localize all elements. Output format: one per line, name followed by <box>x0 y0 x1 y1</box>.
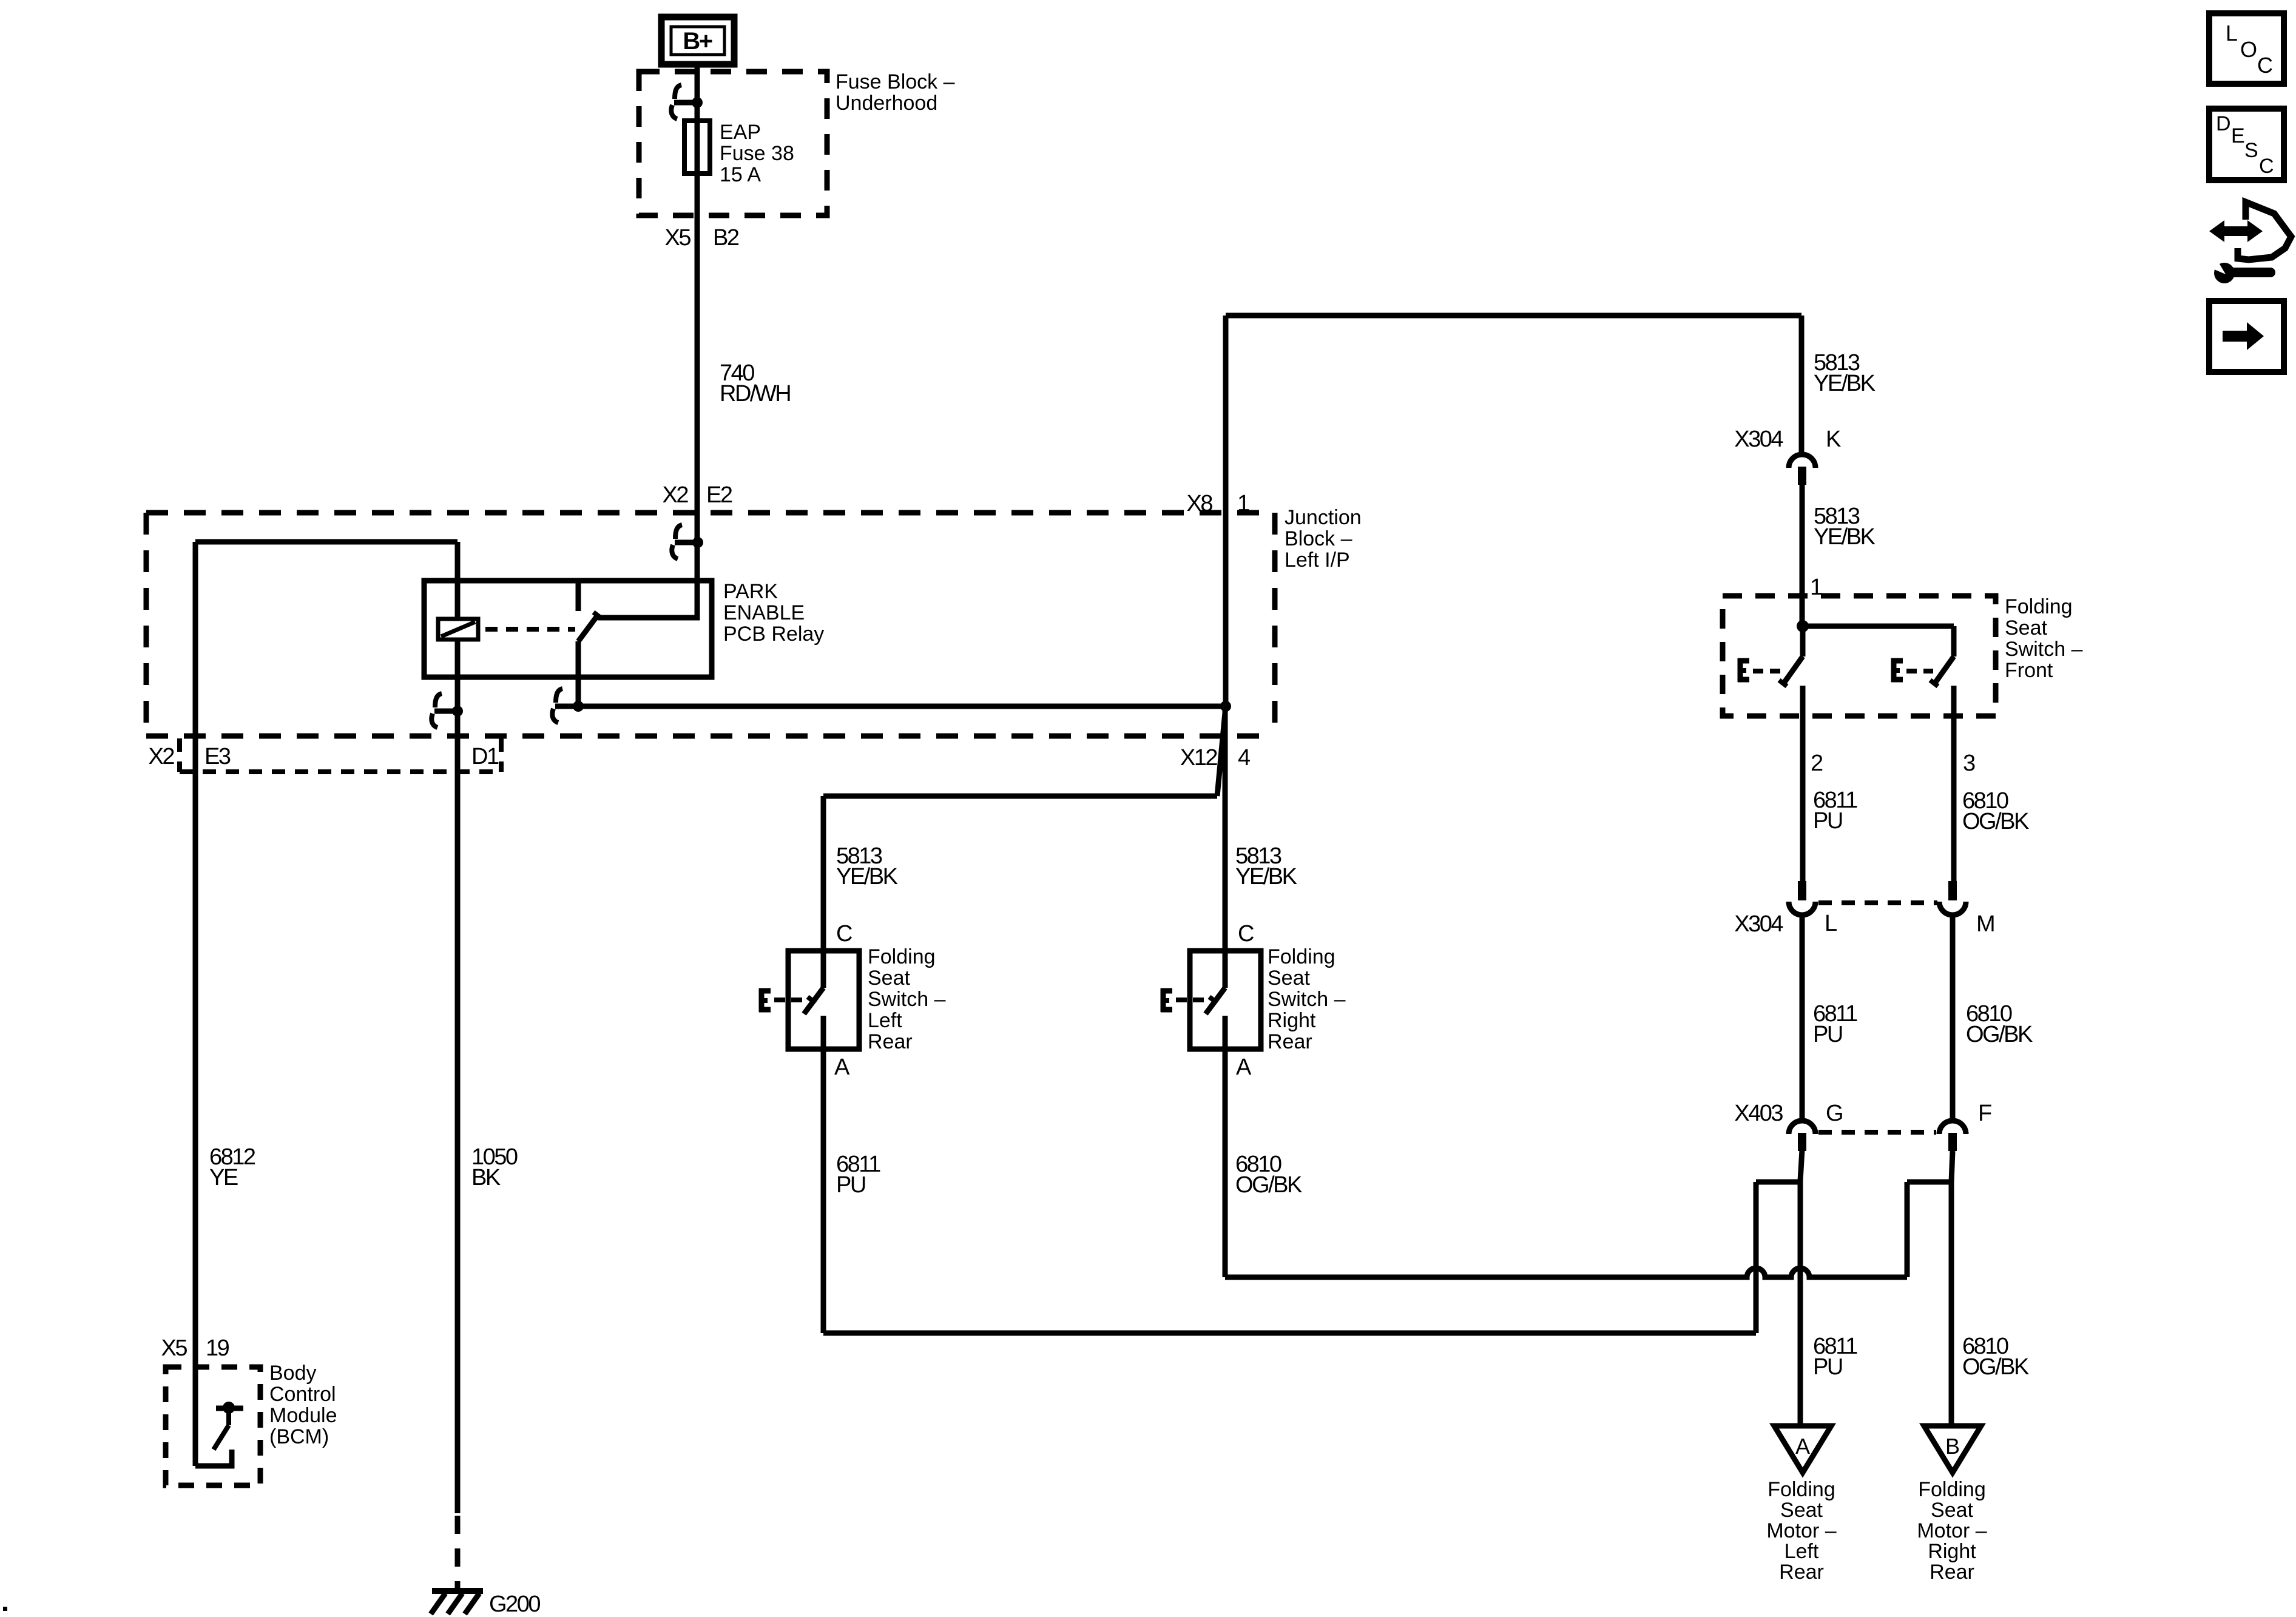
svg-text:15 A: 15 A <box>720 163 761 186</box>
svg-text:A: A <box>1236 1055 1252 1080</box>
svg-text:Folding: Folding <box>868 945 936 968</box>
svg-text:G: G <box>1826 1101 1842 1126</box>
svg-text:Switch –: Switch – <box>2005 638 2083 661</box>
svg-text:Switch –: Switch – <box>1268 988 1346 1011</box>
svg-text:OG/BK: OG/BK <box>1962 1354 2029 1380</box>
svg-text:D: D <box>2216 112 2231 135</box>
svg-text:G200: G200 <box>489 1592 540 1617</box>
svg-text:Switch –: Switch – <box>868 988 946 1011</box>
svg-text:PU: PU <box>1813 1022 1842 1047</box>
svg-text:YE/BK: YE/BK <box>836 864 898 890</box>
svg-text:Seat: Seat <box>1268 967 1310 990</box>
svg-text:1: 1 <box>1810 575 1822 600</box>
svg-text:Rear: Rear <box>1930 1561 1974 1584</box>
svg-text:C: C <box>2257 53 2273 78</box>
svg-text:YE: YE <box>209 1165 238 1190</box>
svg-text:E: E <box>2231 124 2245 147</box>
svg-text:B: B <box>1945 1434 1960 1459</box>
svg-text:X12: X12 <box>1180 745 1217 771</box>
svg-text:Seat: Seat <box>868 967 910 990</box>
svg-text:Control: Control <box>269 1383 336 1406</box>
svg-text:(BCM): (BCM) <box>269 1425 329 1448</box>
svg-text:4: 4 <box>1238 745 1251 771</box>
svg-text:Seat: Seat <box>2005 616 2047 640</box>
svg-text:Module: Module <box>269 1404 337 1427</box>
svg-text:2: 2 <box>1811 751 1823 776</box>
svg-text:Folding: Folding <box>1918 1478 1986 1501</box>
svg-text:B2: B2 <box>713 225 739 251</box>
svg-text:S: S <box>2244 139 2258 162</box>
svg-text:1: 1 <box>1237 491 1249 516</box>
svg-text:A: A <box>1795 1434 1810 1459</box>
svg-text:X5: X5 <box>665 225 691 251</box>
svg-text:Fuse 38: Fuse 38 <box>720 142 794 165</box>
svg-text:C: C <box>2259 155 2274 178</box>
svg-text:Junction: Junction <box>1285 506 1362 529</box>
svg-text:Right: Right <box>1928 1540 1976 1563</box>
svg-text:PARK: PARK <box>723 580 778 603</box>
svg-text:Folding: Folding <box>1268 945 1335 968</box>
svg-text:YE/BK: YE/BK <box>1814 371 1876 396</box>
svg-text:K: K <box>1826 427 1841 452</box>
svg-text:Fuse Block –: Fuse Block – <box>836 70 955 93</box>
svg-text:E3: E3 <box>204 744 231 769</box>
svg-text:BK: BK <box>471 1165 501 1190</box>
svg-text:X5: X5 <box>161 1335 187 1361</box>
svg-text:X403: X403 <box>1734 1101 1783 1126</box>
svg-text:C: C <box>836 921 852 947</box>
svg-text:F: F <box>1978 1101 1991 1126</box>
svg-text:Rear: Rear <box>1779 1561 1824 1584</box>
svg-text:Motor –: Motor – <box>1766 1519 1836 1542</box>
svg-text:D1: D1 <box>471 744 499 769</box>
svg-text:A: A <box>834 1055 850 1080</box>
svg-text:Motor –: Motor – <box>1917 1519 1987 1542</box>
svg-text:YE/BK: YE/BK <box>1235 864 1297 890</box>
svg-text:3: 3 <box>1963 751 1975 776</box>
svg-text:Right: Right <box>1268 1009 1316 1032</box>
svg-text:B+: B+ <box>683 28 712 55</box>
svg-text:PU: PU <box>836 1172 865 1198</box>
svg-text:Seat: Seat <box>1780 1499 1823 1522</box>
svg-text:RD/WH: RD/WH <box>720 381 790 407</box>
svg-text:PCB Relay: PCB Relay <box>723 623 824 646</box>
svg-text:Block –: Block – <box>1285 527 1352 550</box>
svg-text:Left I/P: Left I/P <box>1285 549 1350 572</box>
svg-text:PU: PU <box>1813 808 1842 834</box>
svg-text:L: L <box>2226 21 2238 46</box>
svg-text:M: M <box>1976 911 1994 937</box>
svg-text:YE/BK: YE/BK <box>1814 524 1876 550</box>
svg-text:X304: X304 <box>1734 427 1783 452</box>
svg-text:Folding: Folding <box>2005 595 2073 618</box>
svg-text:C: C <box>1238 921 1254 947</box>
svg-text:Left: Left <box>868 1009 902 1032</box>
svg-text:X2: X2 <box>663 482 689 508</box>
svg-text:Front: Front <box>2005 659 2053 682</box>
svg-text:Left: Left <box>1784 1540 1819 1563</box>
svg-text:Rear: Rear <box>868 1030 913 1053</box>
svg-text:X304: X304 <box>1734 911 1783 937</box>
svg-text:OG/BK: OG/BK <box>1962 809 2029 834</box>
svg-text:OG/BK: OG/BK <box>1966 1022 2033 1047</box>
svg-text:X2: X2 <box>149 744 175 769</box>
svg-text:PU: PU <box>1813 1354 1842 1380</box>
svg-text:Underhood: Underhood <box>836 92 937 115</box>
svg-text:E2: E2 <box>706 482 732 508</box>
svg-text:L: L <box>1825 911 1837 936</box>
svg-text:Folding: Folding <box>1768 1478 1835 1501</box>
svg-text:19: 19 <box>206 1335 229 1361</box>
svg-text:X8: X8 <box>1187 491 1213 516</box>
svg-text:EAP: EAP <box>720 121 761 144</box>
svg-text:O: O <box>2240 37 2257 62</box>
svg-text:Seat: Seat <box>1931 1499 1973 1522</box>
svg-text:Body: Body <box>269 1362 317 1385</box>
svg-text:OG/BK: OG/BK <box>1235 1172 1302 1198</box>
svg-text:Rear: Rear <box>1268 1030 1312 1053</box>
svg-text:ENABLE: ENABLE <box>723 601 805 624</box>
